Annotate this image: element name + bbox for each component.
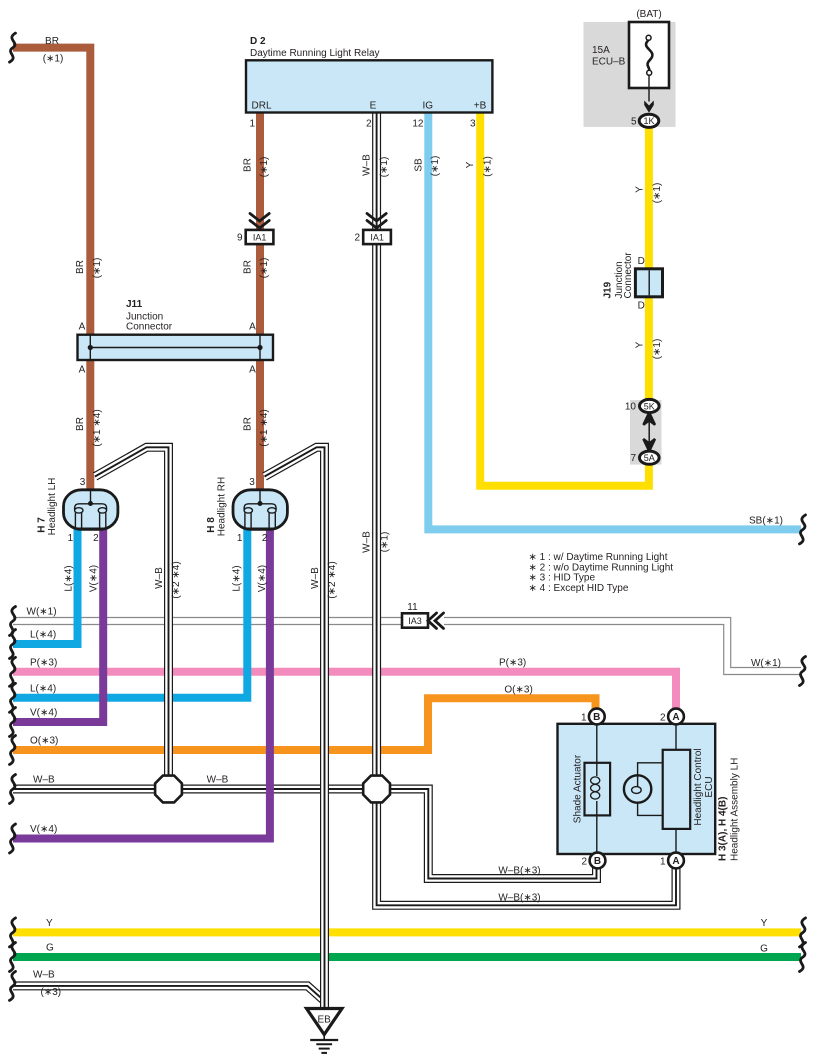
wire Y from relay +B to 5A connector bbox=[480, 113, 649, 486]
svg-text:(∗1): (∗1) bbox=[380, 532, 391, 553]
svg-text:P(∗3): P(∗3) bbox=[499, 658, 526, 669]
svg-text:BR: BR bbox=[75, 260, 86, 274]
svg-text:O(∗3): O(∗3) bbox=[504, 685, 532, 696]
pin 1B top bbox=[589, 709, 605, 725]
svg-text:H 7: H 7 bbox=[37, 517, 48, 533]
svg-text:A: A bbox=[672, 712, 679, 723]
svg-text:A: A bbox=[672, 856, 679, 867]
svg-text:A: A bbox=[79, 365, 86, 376]
svg-text:V(∗4): V(∗4) bbox=[257, 565, 268, 592]
svg-text:Daytime Running Light Relay: Daytime Running Light Relay bbox=[250, 48, 380, 59]
svg-text:2: 2 bbox=[354, 233, 360, 244]
wire V(*4) to headlight RH pin 2 bbox=[13, 527, 270, 839]
svg-text:W–B: W–B bbox=[33, 970, 55, 981]
svg-text:D 2: D 2 bbox=[250, 36, 266, 47]
svg-text:E: E bbox=[370, 101, 377, 112]
wire Y bottom horizontal bbox=[13, 928, 801, 936]
svg-text:(∗1): (∗1) bbox=[259, 258, 270, 279]
svg-text:W–B(∗3): W–B(∗3) bbox=[498, 866, 540, 877]
svg-text:D: D bbox=[638, 256, 645, 267]
svg-text:H 8: H 8 bbox=[206, 517, 217, 533]
svg-text:3: 3 bbox=[80, 477, 86, 488]
svg-text:(∗1 ∗4): (∗1 ∗4) bbox=[259, 409, 270, 446]
wire Y from 1K fuse output to 5K connector bbox=[645, 124, 653, 402]
fuse 15A ECU-B bbox=[629, 22, 669, 113]
svg-text:P(∗3): P(∗3) bbox=[30, 657, 57, 668]
svg-text:W–B: W–B bbox=[33, 775, 55, 786]
svg-text:2: 2 bbox=[581, 856, 587, 867]
wire W-B (*2 *4) from headlight RH to EB ground bbox=[265, 447, 325, 1008]
svg-text:W–B: W–B bbox=[154, 567, 165, 589]
connector IA1 left (9) bbox=[237, 214, 273, 245]
svg-text:J11: J11 bbox=[126, 299, 143, 310]
svg-text:5: 5 bbox=[631, 117, 637, 128]
svg-text:1: 1 bbox=[581, 712, 587, 723]
wire W-B main horizontal with branch to pin 2B bbox=[13, 789, 597, 879]
connector ovals 5K / 5A with arrows bbox=[625, 399, 659, 464]
wire SB from relay IG to right break bbox=[428, 113, 801, 530]
wire O(*3) to pin 1B bbox=[13, 698, 596, 750]
svg-text:Headlight Assembly LH: Headlight Assembly LH bbox=[730, 758, 741, 861]
svg-text:IA1: IA1 bbox=[253, 233, 267, 243]
svg-text:(∗1): (∗1) bbox=[652, 183, 663, 204]
connector IA3 (11) bbox=[402, 602, 444, 628]
svg-text:1K: 1K bbox=[643, 116, 654, 126]
wire W(*1) left segment bbox=[13, 617, 403, 625]
svg-text:Headlight RH: Headlight RH bbox=[217, 477, 228, 536]
pin 2A top bbox=[668, 709, 684, 725]
svg-text:+B: +B bbox=[474, 101, 487, 112]
svg-text:Connector: Connector bbox=[126, 322, 173, 333]
svg-text:7: 7 bbox=[630, 453, 636, 464]
break squiggles left edge bbox=[10, 33, 16, 62]
ground EB bbox=[307, 1009, 343, 1053]
svg-text:SB(∗1): SB(∗1) bbox=[749, 516, 783, 527]
svg-text:2: 2 bbox=[93, 533, 99, 544]
gray 5K/5A connector background bbox=[630, 400, 662, 465]
svg-text:IG: IG bbox=[423, 101, 434, 112]
svg-text:(∗1): (∗1) bbox=[379, 157, 390, 178]
svg-text:A: A bbox=[249, 365, 256, 376]
svg-text:3: 3 bbox=[249, 477, 255, 488]
wire L(*4) to headlight LH pin 1 bbox=[13, 527, 78, 644]
svg-text:BR: BR bbox=[45, 36, 59, 47]
svg-text:(∗1): (∗1) bbox=[430, 156, 441, 177]
svg-text:BR: BR bbox=[75, 417, 86, 431]
svg-text:BR: BR bbox=[243, 417, 254, 431]
connector IA1 right (2) bbox=[354, 214, 390, 245]
svg-text:12: 12 bbox=[412, 119, 424, 130]
svg-text:10: 10 bbox=[625, 402, 637, 413]
svg-text:V(∗4): V(∗4) bbox=[30, 708, 57, 719]
break squiggles right edge bbox=[800, 515, 806, 544]
junction connector J11 bbox=[78, 335, 274, 360]
svg-text:(∗2 ∗4): (∗2 ∗4) bbox=[171, 561, 182, 598]
headlight assembly LH box bbox=[558, 724, 716, 854]
wire G bottom horizontal bbox=[13, 953, 801, 961]
svg-text:W(∗1): W(∗1) bbox=[27, 607, 57, 618]
svg-text:V(∗4): V(∗4) bbox=[30, 824, 57, 835]
svg-text:W–B: W–B bbox=[362, 531, 373, 553]
svg-text:L(∗4): L(∗4) bbox=[63, 565, 74, 591]
svg-text:1: 1 bbox=[249, 119, 255, 130]
svg-text:5A: 5A bbox=[644, 453, 655, 463]
pin 2B bottom bbox=[590, 853, 606, 869]
svg-text:O(∗3): O(∗3) bbox=[30, 736, 58, 747]
svg-text:1: 1 bbox=[237, 533, 243, 544]
svg-text:G: G bbox=[760, 944, 768, 955]
svg-text:1: 1 bbox=[68, 533, 74, 544]
svg-text:(∗1): (∗1) bbox=[483, 156, 494, 177]
svg-text:Y: Y bbox=[46, 918, 53, 929]
svg-text:(∗1): (∗1) bbox=[43, 54, 64, 65]
svg-text:3: 3 bbox=[470, 119, 476, 130]
svg-text:SB: SB bbox=[414, 158, 425, 172]
gray fuse block background bbox=[584, 22, 676, 127]
svg-text:W–B: W–B bbox=[310, 567, 321, 589]
svg-text:W(∗1): W(∗1) bbox=[751, 658, 781, 669]
svg-text:5K: 5K bbox=[644, 401, 655, 411]
svg-text:2: 2 bbox=[660, 712, 666, 723]
svg-text:G: G bbox=[46, 943, 54, 954]
svg-text:EB: EB bbox=[318, 1014, 332, 1025]
svg-text:(BAT): (BAT) bbox=[636, 9, 661, 20]
junction octagon left bbox=[155, 776, 182, 803]
svg-text:15A: 15A bbox=[592, 45, 610, 56]
svg-text:(∗3): (∗3) bbox=[41, 987, 62, 998]
wire W-B(*3) bottom left to EB bbox=[13, 986, 325, 1001]
svg-text:Y: Y bbox=[635, 186, 646, 193]
junction connector J19 bbox=[635, 269, 662, 297]
wire P(*3) to pin 2A bbox=[13, 672, 676, 710]
svg-text:Y: Y bbox=[465, 161, 476, 168]
svg-text:A: A bbox=[249, 321, 256, 332]
svg-text:W–B(∗3): W–B(∗3) bbox=[498, 893, 540, 904]
svg-text:J19: J19 bbox=[603, 281, 614, 298]
svg-text:Shade Actuator: Shade Actuator bbox=[573, 754, 584, 823]
svg-text:1: 1 bbox=[660, 856, 666, 867]
wire BR from break to headlight LH pin 3 bbox=[13, 48, 90, 490]
svg-text:ECU–B: ECU–B bbox=[592, 57, 626, 68]
svg-text:2: 2 bbox=[262, 533, 268, 544]
svg-text:D: D bbox=[638, 301, 645, 312]
relay D2 box bbox=[246, 60, 492, 112]
junction octagon right bbox=[363, 776, 390, 803]
svg-text:W–B: W–B bbox=[207, 775, 229, 786]
headlight RH H8 bbox=[233, 490, 287, 530]
svg-text:11: 11 bbox=[407, 602, 418, 613]
connector oval 1K bbox=[639, 114, 659, 127]
svg-text:W–B: W–B bbox=[362, 154, 373, 176]
svg-text:Headlight LH: Headlight LH bbox=[47, 478, 58, 536]
svg-text:∗ 4 : Except HID Type: ∗ 4 : Except HID Type bbox=[529, 583, 629, 594]
svg-text:(∗2 ∗4): (∗2 ∗4) bbox=[327, 561, 338, 598]
svg-text:B: B bbox=[593, 712, 600, 723]
svg-text:Y: Y bbox=[761, 918, 768, 929]
svg-text:BR: BR bbox=[243, 158, 254, 172]
svg-text:(∗1): (∗1) bbox=[259, 157, 270, 178]
svg-text:DRL: DRL bbox=[252, 101, 272, 112]
svg-text:(∗1): (∗1) bbox=[92, 258, 103, 279]
svg-text:ECU: ECU bbox=[704, 776, 715, 797]
svg-text:Y: Y bbox=[635, 341, 646, 348]
svg-text:V(∗4): V(∗4) bbox=[89, 565, 100, 592]
wire L(*4) to headlight RH pin 1 bbox=[13, 527, 247, 698]
svg-text:B: B bbox=[594, 856, 601, 867]
svg-text:L(∗4): L(∗4) bbox=[30, 683, 56, 694]
wire V(*4) to headlight LH pin 2 bbox=[13, 527, 103, 722]
svg-text:L(∗4): L(∗4) bbox=[231, 565, 242, 591]
svg-text:2: 2 bbox=[366, 119, 372, 130]
svg-text:Connector: Connector bbox=[623, 252, 634, 299]
svg-text:(∗1): (∗1) bbox=[652, 339, 663, 360]
wire BR from relay DRL to headlight RH pin 3 bbox=[256, 113, 264, 491]
svg-text:Headlight Control: Headlight Control bbox=[693, 748, 704, 825]
pin 1A bottom bbox=[668, 853, 684, 869]
svg-text:BR: BR bbox=[243, 260, 254, 274]
svg-text:IA1: IA1 bbox=[370, 233, 384, 243]
headlight LH H7 bbox=[64, 490, 118, 530]
svg-text:9: 9 bbox=[237, 233, 243, 244]
svg-text:IA3: IA3 bbox=[408, 616, 422, 626]
wire W-B from relay E through octagon to pin 1A bbox=[377, 113, 676, 906]
svg-text:L(∗4): L(∗4) bbox=[30, 630, 56, 641]
svg-text:H 3(A), H 4(B): H 3(A), H 4(B) bbox=[718, 797, 729, 861]
wire W-B (*2 *4) from headlight LH to junction bbox=[95, 447, 169, 784]
svg-text:(∗1 ∗4): (∗1 ∗4) bbox=[92, 409, 103, 446]
wire W(*1) right segment bbox=[444, 621, 801, 671]
svg-text:A: A bbox=[79, 321, 86, 332]
